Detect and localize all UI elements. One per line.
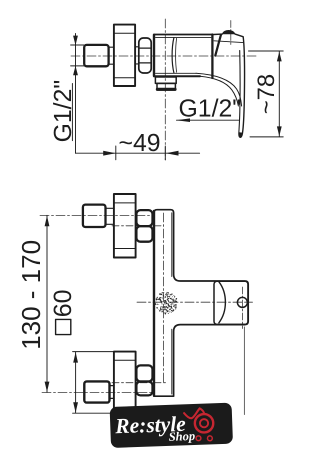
outlet collar (top view): [155, 77, 176, 83]
thread between flange and nut (top view): [135, 47, 139, 64]
dimension 60: [73, 352, 116, 414]
projection line from cap: [243, 327, 245, 415]
centerline outlet vertical top view: [164, 19, 166, 160]
union nut (top view): [139, 38, 151, 73]
mixer body column (front view): [154, 210, 248, 397]
logo Re:style Shop: [110, 403, 233, 448]
stippled circle (front view): [155, 292, 177, 315]
handle joint line (top view): [211, 35, 213, 79]
wall flange bottom (front view): [114, 352, 136, 414]
union nut bottom (front view): [136, 365, 152, 395]
neck top (front view): [106, 208, 115, 224]
mixer body (top view): [154, 35, 212, 77]
centerline handle bump top view: [230, 21, 232, 46]
neck bottom (front view): [110, 386, 115, 399]
nipple neck (top view): [109, 47, 114, 64]
svg-text:~49: ~49: [119, 130, 161, 157]
centerline screw vertical: [241, 287, 243, 329]
dimension ~49: [76, 146, 200, 160]
svg-text:130 - 170: 130 - 170: [16, 240, 46, 350]
wall nipple top (front view): [83, 205, 106, 227]
leader line G1/2 middle: [176, 118, 239, 122]
dimension 130-170: [45, 215, 50, 392]
svg-text:60: 60: [49, 289, 77, 317]
centerline column vertical: [162, 213, 164, 383]
cartridge cap (front view): [214, 281, 248, 324]
centerline horizontal top view: [71, 55, 257, 57]
centerline cartridge horizontal: [137, 301, 253, 303]
centerline wall top: [40, 214, 153, 216]
svg-text:~78: ~78: [253, 74, 280, 114]
outlet thread G1/2 (top view): [157, 83, 175, 90]
wall nipple bottom (front view): [84, 381, 109, 402]
wall flange top (front view): [114, 194, 136, 258]
centerline inlet top: [112, 225, 164, 227]
handle screw circle: [237, 297, 247, 307]
svg-text:G1/2": G1/2": [50, 80, 77, 143]
handle lever (top view): [196, 30, 245, 137]
square symbol: [56, 319, 71, 334]
dimension G1/2 left: [71, 34, 84, 154]
svg-text:Shop: Shop: [168, 429, 195, 444]
centerline inlet bottom: [112, 382, 166, 384]
wall flange (top view): [114, 25, 135, 86]
union nut top (front view): [136, 210, 152, 242]
svg-text:G1/2": G1/2": [179, 95, 242, 122]
wall nipple G1/2 (top view): [84, 45, 108, 66]
dimension ~78: [249, 51, 284, 137]
centerline wall bottom: [42, 391, 154, 393]
